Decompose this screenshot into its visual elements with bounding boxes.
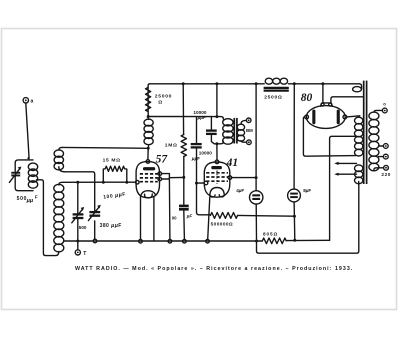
node bus junction 2: [215, 82, 218, 85]
wire primary top lead: [374, 110, 383, 112]
svg-text:a: a: [31, 99, 34, 105]
wire HT center tap: [330, 136, 356, 240]
capacitor C9 8µF: [288, 189, 301, 216]
tube V3 left pin: [305, 115, 309, 119]
tube V1 grid cap bar: [143, 167, 155, 170]
T2 top hook: [353, 87, 362, 92]
wire L3 top to plate coil: [62, 146, 148, 149]
wire OT vertical: [216, 84, 218, 117]
resistor R2 25000Ω: [146, 84, 151, 117]
tube V2 grid pin: [204, 181, 208, 185]
svg-text:380 µµF: 380 µµF: [100, 223, 122, 229]
node bus ring 1: [93, 239, 97, 243]
wire reaction return: [65, 172, 95, 239]
capacitor C8 4µF: [250, 178, 263, 240]
ground terminal T: [75, 250, 86, 257]
tube V2 grid dashes: [206, 171, 228, 185]
capacitor C7 10000µµF tone: [206, 117, 217, 144]
wire B+ rectified: [293, 84, 295, 189]
svg-text:41: 41: [226, 157, 239, 169]
label 2500Ω: [264, 95, 282, 101]
heater tap arrow 2: [334, 173, 356, 176]
wire primary tap 1: [379, 145, 384, 147]
T2 core: [364, 81, 367, 184]
node junction grid combo right: [125, 181, 128, 184]
svg-text:µµF: µµF: [197, 115, 206, 120]
svg-text:57: 57: [156, 153, 169, 165]
coil L2 tuning secondary: [54, 184, 64, 252]
wire 80 top-right pin: [331, 97, 364, 103]
speaker terminal BM top: [246, 118, 251, 123]
capacitor C5 blocking: [179, 205, 189, 211]
label 380µµF: [100, 223, 122, 229]
variable capacitor C1 500µµF: [9, 167, 21, 183]
wire antenna lead: [26, 103, 30, 159]
label BM: [246, 128, 253, 133]
svg-text:BM: BM: [246, 128, 253, 133]
wire V1 plate branch to bus: [168, 179, 171, 239]
tube V2 heater: [210, 188, 225, 198]
svg-text:1MΩ: 1MΩ: [165, 143, 178, 149]
node junction L4 bottom: [147, 147, 150, 150]
wire T1 to 41 plate cap: [216, 144, 218, 160]
mains terminal 0: [382, 102, 387, 113]
node bus junction 1: [182, 82, 185, 85]
node junction plate 57: [182, 176, 185, 179]
tube V1 grid pin: [136, 180, 140, 184]
node bus ring 2: [139, 239, 143, 243]
svg-text:4µF: 4µF: [236, 188, 244, 193]
heater tap arrow 1: [334, 162, 356, 165]
node junction grid combo left: [102, 181, 105, 184]
node bus ring 3: [168, 239, 172, 243]
node bus ring 5: [206, 239, 210, 243]
svg-text:805Ω: 805Ω: [263, 232, 278, 237]
wire V2 heater leg: [208, 197, 210, 240]
svg-text:500000Ω: 500000Ω: [211, 221, 234, 226]
label 15MΩ: [103, 157, 121, 163]
label 10000µµF lower: [191, 150, 212, 160]
resistor R3 1MΩ: [181, 135, 186, 157]
node junction 41 grid: [195, 182, 198, 185]
mains terminal tap1: [383, 144, 388, 149]
wire T1 secondary leads: [241, 120, 247, 142]
node junction grid/C2: [76, 181, 79, 184]
wire R4 to C9 node: [238, 214, 295, 217]
variable capacitor C3 380µµF: [88, 205, 100, 221]
label 500: [79, 225, 87, 230]
svg-text:µµ: µµ: [26, 198, 34, 204]
mains terminal 220: [381, 165, 391, 176]
choke L5 2500Ω: [264, 78, 289, 90]
wire OT primary bottom: [217, 142, 224, 144]
label 57: [156, 153, 169, 165]
label 805Ω: [263, 232, 278, 237]
svg-text:15 MΩ: 15 MΩ: [103, 157, 121, 163]
svg-text:8µF: 8µF: [303, 188, 311, 193]
label 25000Ω: [155, 93, 172, 105]
svg-text:25000: 25000: [155, 93, 172, 99]
wire filament winding bottom: [358, 182, 360, 186]
node junction R4/C9: [293, 215, 296, 218]
wire R3 to plate node: [183, 157, 185, 178]
wire 80 top-left pin to bus: [322, 84, 324, 103]
node bus junction 3: [255, 82, 258, 85]
tube V1 grid dashes: [140, 174, 158, 182]
wire plate node down: [183, 177, 185, 204]
resistor R3 1MΩ branch wire: [182, 84, 184, 135]
coil T1 primary: [223, 119, 233, 144]
tube V3 top cap: [321, 103, 333, 106]
wire 80 right pin to HV winding: [347, 116, 360, 117]
tube V3 80 envelope: [306, 106, 345, 129]
tube V2 top cap pin: [215, 160, 219, 164]
svg-text:o: o: [383, 102, 386, 107]
svg-text:µF: µF: [186, 213, 193, 218]
variable capacitor C2 500: [72, 207, 84, 223]
coil T2 mains primary: [369, 112, 379, 171]
node bus dot T: [76, 240, 79, 243]
svg-text:µµF: µµF: [191, 156, 200, 161]
wire C2 branch: [77, 182, 79, 250]
svg-text:Ω: Ω: [158, 100, 162, 106]
wire grid lead: [103, 181, 136, 183]
capacitor C6 10000µµF coupling: [191, 117, 202, 183]
wire lower return bus: [257, 185, 359, 254]
wire C5 to bus: [183, 211, 186, 240]
node junction C8 bus: [255, 240, 258, 243]
wire V1 heater legs: [141, 197, 154, 241]
svg-text:220: 220: [381, 172, 391, 177]
wire bottom bus: [64, 239, 330, 242]
mains terminal tap2: [383, 154, 388, 159]
svg-text:00: 00: [172, 215, 177, 220]
node junction OT top: [215, 115, 218, 118]
wire tank loop: [15, 160, 33, 191]
label 500µµF: [17, 195, 38, 205]
node bus ring 4: [183, 239, 187, 243]
label C5 value: [172, 213, 193, 220]
tube V1 top cap pin: [146, 160, 150, 164]
wire L4 top: [147, 117, 149, 120]
node junction L4 top: [147, 115, 150, 118]
T1 core: [234, 118, 237, 144]
wire primary bottom lead: [374, 168, 384, 170]
label 10000µµF upper: [193, 110, 206, 120]
tube V1 57 envelope: [136, 162, 159, 198]
tube V2 41 envelope: [204, 162, 230, 197]
wire 41 screen: [232, 177, 256, 179]
svg-text:F: F: [35, 195, 38, 200]
label 1MΩ: [165, 143, 178, 149]
label 8µF: [303, 188, 311, 193]
coil L1 antenna coil: [28, 163, 37, 188]
coil T1 secondary: [237, 124, 244, 141]
coil L3 reaction: [54, 147, 64, 171]
resistor R1 15MΩ: [103, 166, 127, 182]
coil T2 HV secondary: [355, 117, 363, 156]
antenna terminal a: [23, 98, 33, 105]
svg-text:2500Ω: 2500Ω: [264, 95, 282, 101]
tube V1 heater: [141, 191, 156, 198]
wire 41 grid to R4: [197, 183, 211, 215]
node junction C9 bus: [293, 239, 296, 242]
node bus junction 4: [293, 82, 296, 85]
wire C9 to bus: [293, 216, 295, 240]
wire 80 left pin filament: [303, 117, 355, 156]
node junction OT bottom: [215, 142, 218, 145]
wire tank to coil L2 bottom: [37, 180, 59, 256]
node bus junction 5: [321, 82, 324, 85]
coil T2 filament winding: [355, 165, 363, 184]
svg-text:500: 500: [79, 225, 87, 230]
svg-text:80: 80: [301, 92, 313, 104]
svg-text:500: 500: [17, 196, 28, 202]
wire grid 41: [197, 182, 205, 184]
tube V3 right pin: [343, 115, 347, 119]
node junction 41 screen: [255, 176, 258, 179]
tube V2 grid cap bar: [211, 166, 222, 169]
label 500000Ω: [211, 221, 234, 226]
wire top B+ bus: [150, 84, 362, 89]
resistor R5 805Ω: [262, 238, 286, 244]
svg-text:WATT RADIO. — Mod. « Popolar: WATT RADIO. — Mod. « Popolare ». – Ricev…: [75, 266, 353, 272]
resistor R4 500000Ω: [210, 213, 237, 219]
wire primary tap 2: [379, 156, 384, 158]
speaker terminal BM bottom: [247, 140, 252, 145]
caption text: [75, 266, 353, 272]
wire V1 plate tab: [162, 174, 184, 179]
wire OT primary top: [217, 117, 224, 120]
coil L4 plate coil: [144, 119, 153, 145]
label 4µF: [236, 188, 244, 193]
label 41: [226, 157, 239, 169]
tube V3 plates: [312, 110, 340, 125]
wire screen bus: [255, 84, 257, 178]
label 80: [301, 92, 313, 104]
wire screen feed: [148, 116, 217, 118]
svg-text:10000: 10000: [199, 150, 212, 155]
wire coil L2 top to grid line: [59, 182, 104, 185]
tube V2 plate pin: [228, 176, 232, 180]
tube V1 plate pins: [158, 172, 162, 181]
svg-text:T: T: [83, 251, 86, 257]
wire L4 bottom to grid cap: [147, 146, 150, 160]
label 100µµF capacitor C4: [103, 192, 126, 201]
